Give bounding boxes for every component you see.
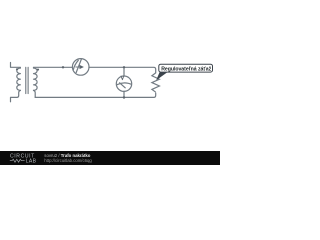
transformer T1 primary bottom lead <box>11 90 21 101</box>
ammeter AM1 circle <box>72 59 89 76</box>
transformer polarity dot secondary <box>37 69 39 71</box>
svg-text:Regulovateľná záťaž: Regulovateľná záťaž <box>161 66 211 72</box>
transformer T1 secondary top lead <box>34 66 73 69</box>
transformer polarity dot primary <box>16 68 18 70</box>
schematic canvas <box>0 0 220 151</box>
ammeter AM1 needle and scale <box>73 59 81 73</box>
ammeter AM1 arrow <box>76 66 80 68</box>
voltmeter VM1 bottom lead <box>123 91 125 97</box>
junction dot: wire joint left of ammeter <box>62 66 64 68</box>
svg-text:http://circuitlab.com/c6qg: http://circuitlab.com/c6qg <box>44 158 92 163</box>
transformer T1 primary top lead <box>11 63 21 69</box>
transformer T1 primary winding <box>17 68 21 90</box>
transformer T1 secondary bottom lead <box>34 90 36 97</box>
voltmeter VM1 circle <box>116 76 131 91</box>
voltmeter VM1 letter V <box>121 76 124 80</box>
wire: bottom from transformer to load corner <box>35 93 156 97</box>
junction dot: voltmeter bottom node <box>123 96 125 98</box>
ammeter AM1 arrowhead <box>80 65 84 69</box>
voltmeter VM1 scale and needle <box>117 83 130 88</box>
annotation box: Regulovatelna zataz <box>159 64 213 72</box>
wire: top from ammeter to load corner <box>89 67 156 73</box>
footer bar <box>0 151 220 165</box>
junction dot: voltmeter top node <box>123 66 125 68</box>
transformer T1 secondary winding <box>34 68 38 90</box>
transformer T1 core <box>26 67 28 93</box>
svg-text:LAB: LAB <box>26 159 37 165</box>
CircuitLab logo zigzag <box>10 159 25 162</box>
annotation callout tail <box>156 72 168 81</box>
resistor R1 zigzag (regulovatelna zataz) <box>152 73 160 92</box>
voltmeter VM1 top lead <box>123 67 125 76</box>
